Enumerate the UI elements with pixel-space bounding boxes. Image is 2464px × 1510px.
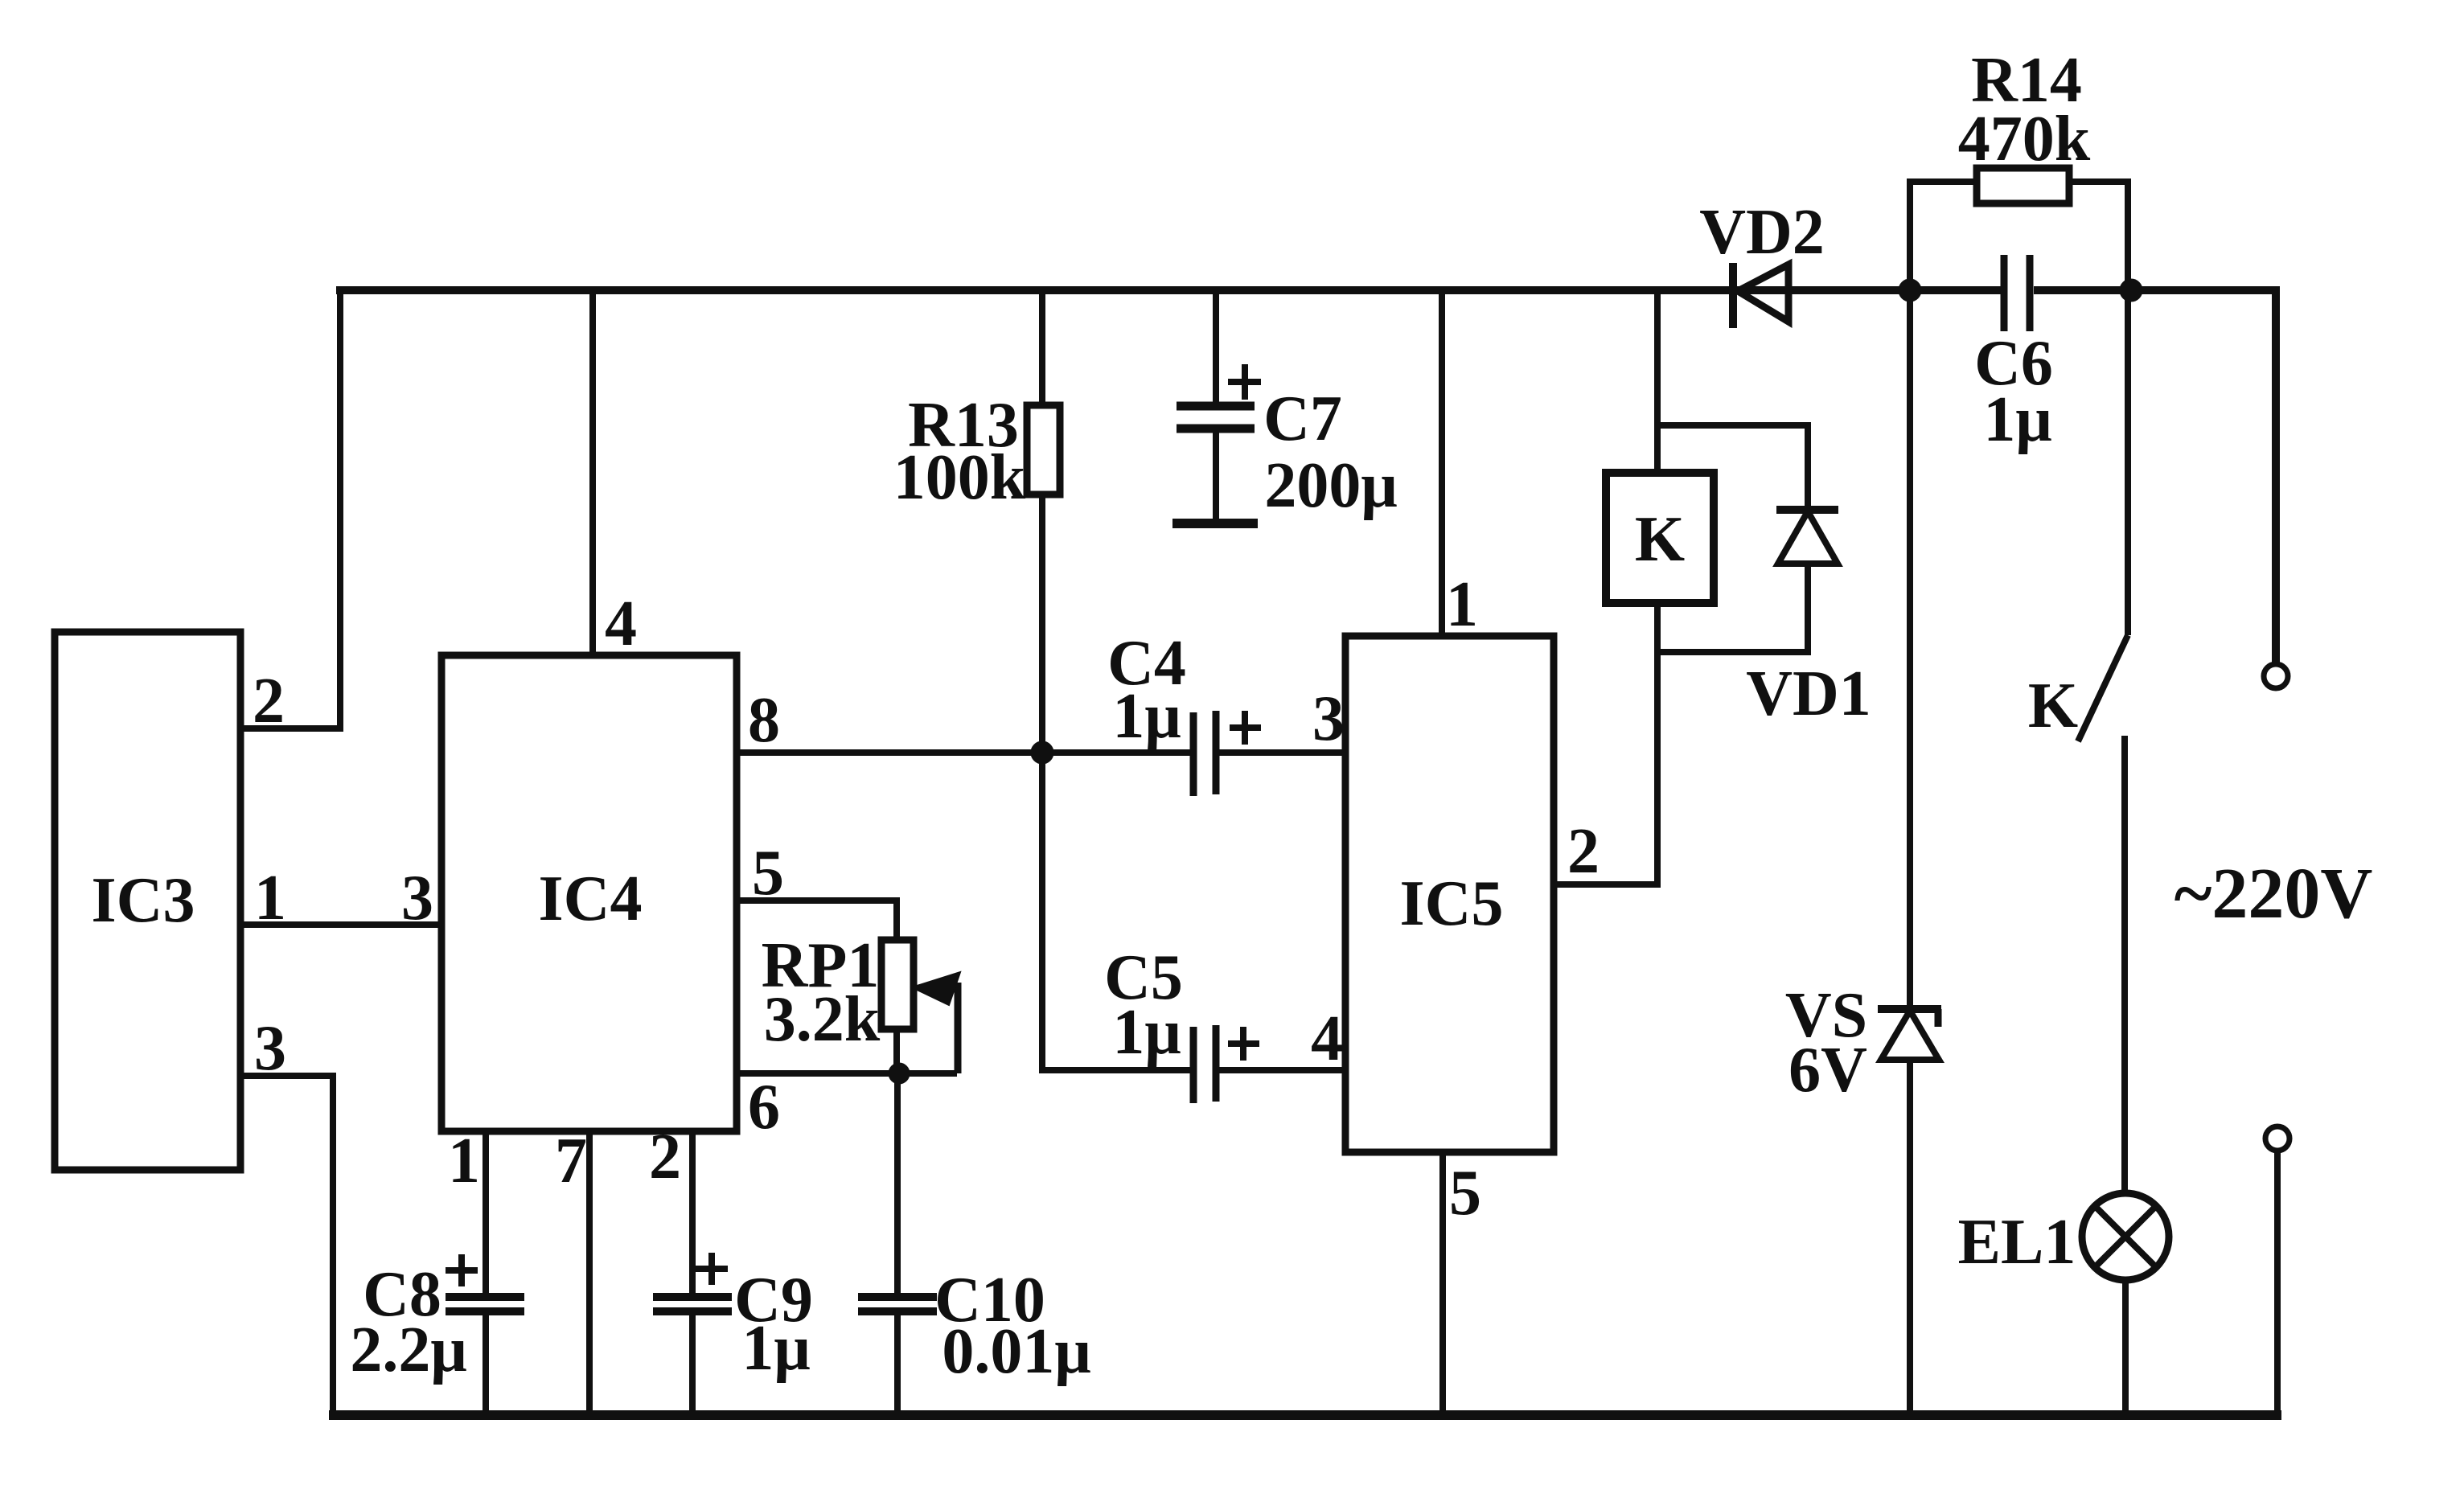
svg-text:3: 3: [1312, 683, 1345, 754]
pin number 8 (IC4 right): [748, 685, 780, 756]
svg-text:2: 2: [649, 1122, 681, 1192]
wire junction down and across to C5: [1042, 753, 1190, 1070]
wire junction down to C10: [894, 1073, 901, 1297]
pin number 3 (IC4 left): [401, 863, 433, 933]
relay coil K: [1606, 473, 1714, 603]
pin number 7 (IC4 bottom): [555, 1126, 587, 1196]
svg-text:200μ: 200μ: [1264, 450, 1397, 521]
svg-text:100k: 100k: [893, 442, 1026, 513]
wire C4 to IC5 pin 3: [1219, 749, 1345, 756]
capacitor C6: [1974, 255, 2053, 455]
pin number 1 (IC3): [254, 863, 286, 933]
svg-text:4: 4: [605, 589, 637, 659]
terminal upper mains: [2264, 664, 2288, 688]
wire IC4 pin 5 to RP1 top: [737, 901, 897, 940]
svg-text:~220V: ~220V: [2174, 854, 2373, 933]
switch K blade: [2028, 635, 2128, 741]
svg-text:3.2k: 3.2k: [764, 984, 881, 1055]
svg-text:VD1: VD1: [1746, 659, 1871, 729]
svg-text:0.01μ: 0.01μ: [942, 1316, 1090, 1387]
node A junction dot: [1899, 279, 1921, 302]
wire bottom bus: [329, 1410, 2281, 1420]
wire top bus left segment: [336, 286, 2001, 294]
pin number 6 (IC4 right): [748, 1072, 780, 1143]
IC4: [441, 655, 737, 1131]
capacitor C8: [350, 1254, 524, 1415]
diode VD2 on top bus: [1699, 197, 1825, 328]
svg-text:5: 5: [752, 838, 784, 909]
svg-text:470k: 470k: [1958, 104, 2091, 174]
pin number 4 (IC5 left): [1311, 1003, 1343, 1074]
pin number 3 (IC3 lower): [254, 1013, 286, 1084]
switch K lower contact wire: [2121, 736, 2128, 1193]
wire IC3 pin 3 stub down to bottom bus: [240, 1076, 333, 1415]
wire IC4 pin 4 to top bus: [589, 290, 596, 655]
svg-text:2: 2: [1567, 816, 1600, 887]
pin number 2 (IC4 bottom): [649, 1122, 681, 1192]
pin number 5 (IC4 right): [752, 838, 784, 909]
svg-text:4: 4: [1311, 1003, 1343, 1074]
svg-text:IC5: IC5: [1400, 868, 1504, 939]
svg-text:3: 3: [401, 863, 433, 933]
svg-text:1μ: 1μ: [741, 1313, 810, 1384]
wire C5 to IC5 pin 4: [1219, 1067, 1345, 1073]
wire IC4 pin 1 down to C8: [483, 1131, 489, 1297]
wire top bus right segment with corner down to upper mains terminal: [2034, 290, 2276, 664]
svg-text:2: 2: [253, 666, 285, 737]
label ~220V: [2174, 854, 2373, 933]
svg-text:1: 1: [1446, 569, 1478, 640]
IC3: [55, 632, 240, 1170]
wire IC4 pin 8 to junction: [737, 749, 1190, 756]
potentiometer RP1: [762, 930, 960, 1073]
terminal lower mains: [2265, 1126, 2289, 1415]
pin number 1 (IC5 top): [1446, 569, 1478, 640]
wire relay bottom rail: [1657, 649, 1689, 655]
resistor R14: [1910, 45, 2128, 290]
wire IC3 pin 2 stub and vertical riser to top bus: [240, 290, 340, 728]
svg-text:6: 6: [748, 1072, 780, 1143]
svg-text:IC4: IC4: [539, 864, 643, 934]
pin number 5 (IC5 bottom): [1449, 1158, 1481, 1229]
wire relay top rail to VD1: [1657, 425, 1808, 510]
wire relay branch from top bus: [1654, 290, 1661, 473]
capacitor C7: [1172, 290, 1398, 523]
lamp EL1: [1958, 1193, 2169, 1415]
svg-text:VD2: VD2: [1699, 197, 1825, 268]
IC5: [1345, 636, 1554, 1152]
resistor R13: [893, 290, 1060, 753]
wire IC5 pin 5 to bottom bus: [1439, 1152, 1446, 1415]
svg-text:IC3: IC3: [92, 865, 195, 936]
node B junction dot: [2120, 279, 2142, 302]
zener diode VS: [1785, 290, 1941, 1415]
svg-text:2.2μ: 2.2μ: [350, 1315, 466, 1385]
wire IC5 pin 2 to relay branch: [1554, 652, 1657, 884]
svg-text:1μ: 1μ: [1112, 681, 1181, 752]
capacitor C10: [858, 1265, 1091, 1415]
svg-text:8: 8: [748, 685, 780, 756]
capacitor C4: [1107, 628, 1261, 796]
diode VD1: [1657, 510, 1871, 729]
capacitor C9: [653, 1253, 813, 1415]
wire IC5 pin 1 to top bus: [1439, 290, 1445, 636]
node junction pin8/R13/C5: [1031, 741, 1053, 764]
switch K upper lead: [2125, 290, 2131, 635]
svg-text:3: 3: [254, 1013, 286, 1084]
svg-text:5: 5: [1449, 1158, 1481, 1229]
wire IC4 pin 2 down to C9: [689, 1131, 696, 1297]
svg-text:1μ: 1μ: [1112, 997, 1181, 1068]
wire relay bottom lead: [1654, 603, 1661, 652]
svg-text:1: 1: [254, 863, 286, 933]
svg-text:K: K: [2028, 671, 2078, 741]
pin number 2 (IC5 right): [1567, 816, 1600, 887]
wire IC3 pin 1 to IC4 pin 3: [240, 921, 441, 928]
pin number 4 (IC4 top): [605, 589, 637, 659]
node junction RP1/C10: [889, 1063, 910, 1084]
svg-text:1: 1: [448, 1126, 480, 1196]
pin number 3 (IC5 left): [1312, 683, 1345, 754]
svg-text:6V: 6V: [1788, 1035, 1867, 1106]
capacitor C5: [1104, 942, 1259, 1103]
svg-text:EL1: EL1: [1958, 1207, 2076, 1278]
svg-text:C7: C7: [1263, 384, 1342, 454]
svg-text:1μ: 1μ: [1983, 384, 2051, 455]
svg-text:7: 7: [555, 1126, 587, 1196]
wire IC4 pin 7 down to bottom bus: [586, 1131, 593, 1415]
wire IC4 pin 6: [737, 1070, 957, 1077]
pin number 2 (IC3): [253, 666, 285, 737]
svg-text:K: K: [1635, 504, 1685, 575]
pin number 1 (IC4 bottom): [448, 1126, 480, 1196]
